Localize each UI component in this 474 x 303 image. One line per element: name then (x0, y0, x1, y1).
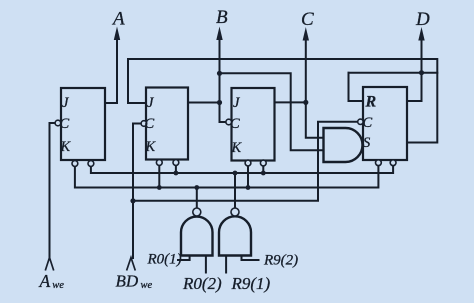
svg-text:J: J (62, 95, 69, 111)
svg-text:S: S (363, 135, 371, 151)
svg-text:R9(2): R9(2) (263, 253, 298, 269)
svg-text:BD: BD (116, 272, 139, 291)
svg-text:R9(1): R9(1) (231, 274, 271, 293)
svg-text:R0(1): R0(1) (147, 252, 182, 268)
svg-text:R0(2): R0(2) (182, 274, 222, 293)
svg-text:we: we (141, 280, 153, 291)
svg-text:R: R (365, 94, 377, 111)
svg-text:A: A (39, 271, 51, 291)
svg-text:K: K (60, 139, 72, 155)
svg-text:we: we (52, 280, 64, 291)
svg-text:J: J (147, 95, 154, 111)
svg-text:C: C (230, 116, 240, 132)
svg-text:D: D (415, 9, 430, 30)
svg-text:J: J (233, 95, 240, 111)
svg-text:C: C (145, 116, 155, 132)
svg-text:C: C (60, 116, 70, 132)
svg-text:K: K (145, 139, 157, 155)
svg-text:K: K (231, 140, 243, 156)
svg-text:C: C (363, 115, 373, 131)
svg-text:B: B (216, 7, 228, 28)
svg-text:A: A (111, 9, 125, 30)
svg-text:C: C (301, 9, 314, 30)
